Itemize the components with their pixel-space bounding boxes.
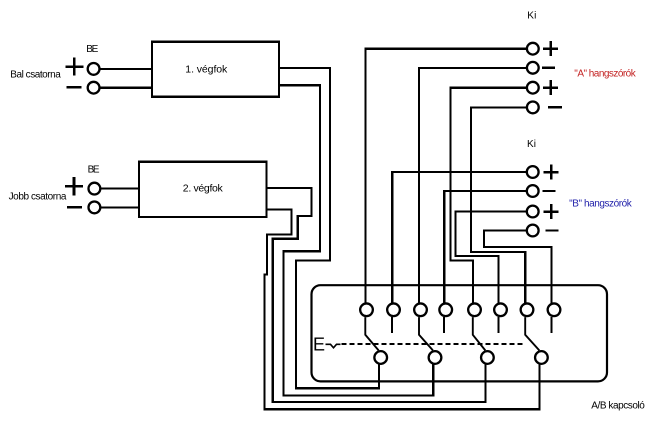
svg-text:E: E — [313, 334, 325, 354]
switch contact stub 4 — [443, 317, 445, 333]
plus sign input L — [65, 57, 83, 75]
switch common contact 1 — [374, 351, 387, 364]
minus sign terminal A4 — [548, 106, 562, 108]
wire speaker terminal B4- to switch contact 8 — [484, 231, 552, 310]
svg-text:BE: BE — [86, 44, 98, 55]
minus sign input L — [66, 86, 81, 88]
input terminal R+ — [89, 183, 101, 195]
switch contact stub 2 — [391, 317, 393, 333]
svg-text:2. végfok: 2. végfok — [183, 182, 224, 194]
minus sign input R — [67, 206, 82, 208]
input terminal L- — [88, 82, 100, 94]
speaker terminal A1 — [527, 43, 539, 55]
wire speaker terminal B1+ to switch contact 2 — [392, 172, 526, 310]
minus sign terminal B4 — [546, 229, 559, 231]
wire speaker terminal A1+ to switch contact 1 — [365, 49, 526, 310]
switch lever 2 — [419, 317, 433, 350]
switch contact 6 — [494, 303, 507, 316]
speaker terminal A2 — [527, 62, 539, 74]
wire left input L- to amp1 — [94, 87, 153, 89]
svg-text:A/B kapcsoló: A/B kapcsoló — [591, 401, 645, 412]
svg-text:1. végfok: 1. végfok — [185, 64, 228, 76]
switch contact 3 — [414, 303, 427, 316]
plus sign terminal A1 — [543, 41, 558, 56]
svg-text:Ki: Ki — [527, 11, 536, 22]
speaker terminal A3 — [527, 82, 539, 94]
svg-text:Bal csatorna: Bal csatorna — [10, 70, 61, 81]
svg-text:BE: BE — [88, 164, 100, 175]
switch contact 2 — [387, 303, 400, 316]
minus sign terminal B2 — [543, 190, 556, 192]
switch common contact 4 — [535, 351, 548, 364]
speaker terminal B1 — [527, 166, 539, 178]
input terminal R- — [89, 202, 101, 214]
svg-text:"A" hangszórók: "A" hangszórók — [574, 69, 636, 80]
plus sign terminal B1 — [544, 165, 559, 180]
wire amp1 - output to switch common 2 — [279, 85, 433, 395]
switch lever 3 — [473, 317, 486, 350]
switch common contact 2 — [429, 351, 442, 364]
speaker terminal A4 — [527, 102, 539, 114]
wire amp2 + output to switch common 3 — [267, 188, 486, 402]
wire speaker terminal A2- to switch contact 3 — [419, 68, 526, 310]
amplifier box U2 "2. végfok" — [139, 162, 267, 217]
speaker terminal B2 — [527, 185, 539, 197]
switch common contact 3 — [481, 351, 494, 364]
wire amp1 + output to switch common 1 — [279, 68, 379, 388]
wire amp2 - output to switch common 4 — [265, 209, 540, 409]
svg-text:Ki: Ki — [527, 139, 536, 150]
switch contact 4 — [439, 303, 452, 316]
switch contact stub 6 — [498, 317, 500, 333]
node E squiggle — [326, 344, 341, 348]
plus sign input R — [65, 177, 83, 195]
wire speaker terminal B3+ to switch contact 6 — [456, 212, 526, 310]
plus sign terminal A3 — [543, 80, 558, 95]
switch contact 8 — [548, 303, 561, 316]
wire right input R+ to amp2 — [94, 187, 140, 189]
switch lever 4 — [525, 317, 539, 350]
switch lever 1 — [365, 317, 378, 350]
plus sign terminal B3 — [544, 204, 559, 219]
switch contact 7 — [521, 303, 534, 316]
wire speaker terminal A3+ to switch contact 5 — [450, 88, 526, 310]
switch contact stub 8 — [551, 317, 553, 333]
wire speaker terminal B2- to switch contact 4 — [444, 191, 526, 310]
node E dashed line — [341, 343, 524, 345]
A/B switch box S1 — [312, 285, 608, 381]
amplifier box U1 "1. végfok" — [152, 42, 279, 97]
speaker terminal B4 — [527, 225, 539, 237]
switch contact 5 — [468, 303, 481, 316]
speaker terminal B3 — [527, 206, 539, 218]
minus sign terminal A2 — [542, 67, 555, 69]
switch contact 1 — [360, 303, 373, 316]
svg-text:"B" hangszórók: "B" hangszórók — [569, 198, 633, 209]
input terminal L+ — [88, 63, 100, 75]
wire speaker terminal A4- to switch contact 7 — [471, 107, 526, 309]
wire left input L+ to amp1 — [94, 68, 153, 70]
wire right input R- to amp2 — [94, 206, 140, 208]
svg-text:Jobb csatorna: Jobb csatorna — [9, 192, 67, 203]
